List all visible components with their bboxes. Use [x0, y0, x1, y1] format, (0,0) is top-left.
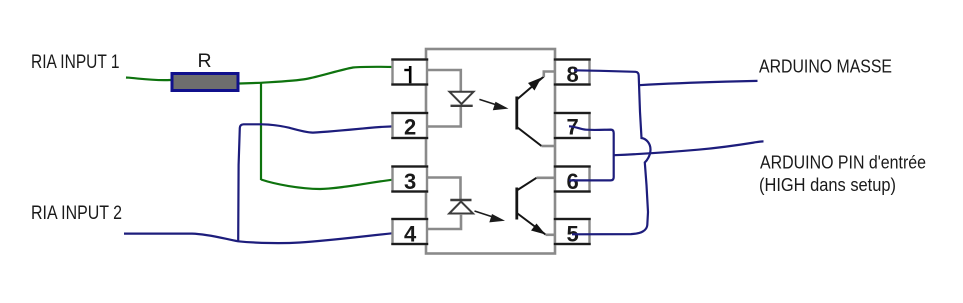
wire gray Q2 collector to pin 6 [537, 177, 556, 180]
wire green resistor to node A [240, 82, 262, 85]
phototransistor Q2 [517, 178, 546, 235]
wire gray pin 1 to LED D1 anode [427, 70, 461, 91]
svg-text:8: 8 [567, 62, 579, 87]
optocoupler U1 body [426, 49, 555, 254]
pin 6 box [554, 167, 591, 195]
resistor R [172, 74, 238, 91]
wire gray LED D2 to pin 4 [427, 214, 461, 229]
light arrow channel 1 [479, 99, 508, 110]
svg-text:ARDUINO MASSE: ARDUINO MASSE [759, 56, 892, 77]
wire green node A to pin 1 [261, 67, 396, 83]
pin 1 box [391, 60, 428, 85]
wire blue pin 8 to corner [574, 70, 639, 75]
svg-text:2: 2 [404, 115, 416, 140]
pin 5 box [554, 219, 591, 247]
LED D2 [449, 200, 473, 214]
wire green vertical node A down [260, 83, 262, 180]
wire gray Q1 emitter to pin 8 [544, 72, 556, 78]
light arrow channel 2 [475, 211, 506, 222]
svg-text:ARDUINO PIN d'entrée: ARDUINO PIN d'entrée [760, 152, 926, 173]
pin 4 box [391, 219, 428, 247]
wire blue pin 2 to vertical [240, 124, 412, 132]
pin 3 box [391, 167, 428, 195]
LED D1 [450, 92, 474, 106]
svg-text:4: 4 [404, 222, 417, 247]
wire gray Q1 collector to body edge pin 7 [542, 145, 556, 148]
wire gray LED D1 cathode to pin 2 [427, 107, 461, 127]
svg-text:R: R [198, 50, 212, 72]
wire blue vertical 8-5 with hop [572, 76, 651, 235]
pin 8 box [554, 60, 591, 88]
wire blue bracket vertical to pin 6 [569, 133, 614, 180]
wire green RIA INPUT 1 to resistor [126, 78, 171, 81]
wire blue vertical left [238, 128, 240, 241]
svg-text:3: 3 [404, 169, 416, 194]
svg-text:RIA INPUT 1: RIA INPUT 1 [31, 51, 120, 73]
wire blue RIA INPUT 2 horizontal [124, 232, 402, 243]
wire gray Q2 emitter to pin 5 [546, 234, 556, 237]
wire blue branch to ARDUINO MASSE [639, 81, 758, 85]
pin 7 box [554, 113, 591, 140]
wire green to pin 3 [261, 178, 405, 189]
wire gray pin 3 to LED D2 [427, 178, 461, 200]
wire blue branch to ARDUINO PIN d'entree [614, 141, 764, 155]
wire blue pin 7 to bracket [569, 126, 614, 133]
svg-text:(HIGH dans setup): (HIGH dans setup) [759, 174, 896, 195]
svg-text:RIA INPUT 2: RIA INPUT 2 [31, 202, 122, 224]
phototransistor Q1 [517, 77, 544, 147]
pin 2 box [391, 113, 428, 140]
